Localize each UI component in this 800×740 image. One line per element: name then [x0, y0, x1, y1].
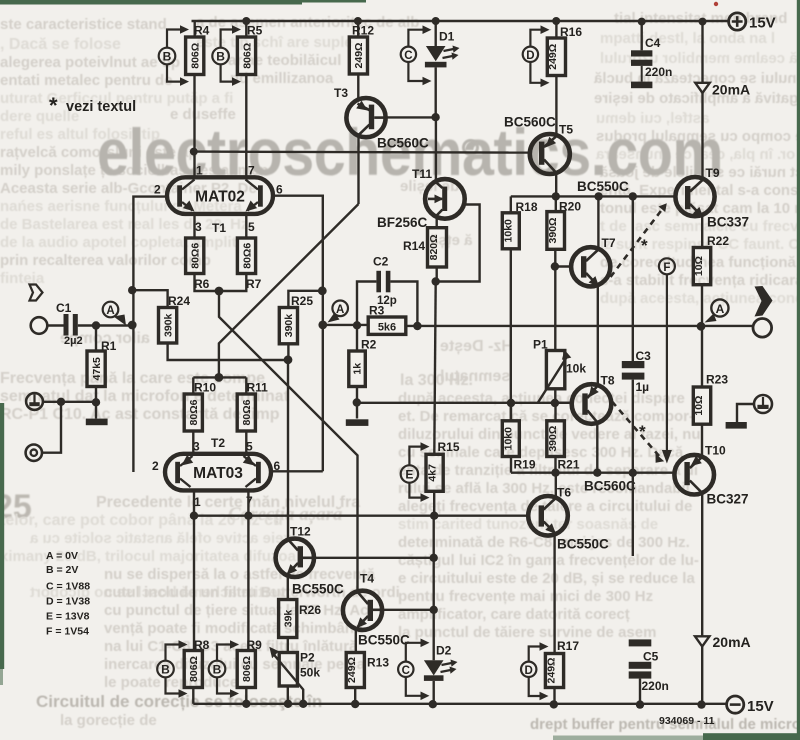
svg-text:A: A — [106, 305, 114, 317]
capacitor C3 1µ — [622, 196, 651, 556]
junction dot T12 base — [430, 554, 438, 562]
svg-text:F = 1V54: F = 1V54 — [46, 626, 89, 638]
svg-text:10k0: 10k0 — [502, 427, 514, 451]
wire D1 node down to T11 drain — [435, 117, 437, 181]
ground bar (input) — [86, 419, 108, 426]
wire T8 collector to rail — [596, 423, 598, 473]
junction dot R24 top at input column — [128, 286, 136, 294]
node A marker (output) — [705, 299, 729, 322]
wire bias column R15 to D2 — [433, 491, 436, 660]
chassis terminal (right) — [726, 395, 772, 429]
svg-text:7: 7 — [248, 164, 255, 178]
resistor R8 806Ω — [184, 638, 209, 704]
O terminal circle — [26, 445, 42, 461]
wire diagonal T3 to MAT03 tail (cross-couple) — [219, 204, 359, 377]
junction dot R19 top — [507, 399, 515, 407]
svg-text:249Ω: 249Ω — [545, 658, 557, 684]
svg-text:80Ω6: 80Ω6 — [241, 243, 253, 269]
svg-text:BC560C: BC560C — [377, 136, 429, 151]
transistor T3 BC560C — [334, 86, 429, 151]
wire T3 collector down crossing — [357, 136, 359, 205]
input terminal circle — [31, 317, 48, 334]
junction dots on top rail — [242, 17, 706, 26]
svg-text:2: 2 — [152, 459, 159, 473]
svg-text:BC560C: BC560C — [584, 479, 636, 494]
wire MAT02 pin3 to R6 — [193, 214, 195, 238]
wire R12 to T3 — [357, 74, 359, 98]
svg-text:T1: T1 — [212, 221, 226, 235]
svg-text:50k: 50k — [300, 666, 320, 680]
resistor R3 5k6 — [368, 304, 406, 335]
svg-text:R17: R17 — [557, 639, 579, 653]
node C marker (D2) — [398, 639, 429, 701]
svg-text:C2: C2 — [373, 255, 389, 269]
svg-text:820Ω: 820Ω — [428, 234, 440, 260]
svg-text:249Ω: 249Ω — [353, 43, 365, 69]
svg-text:D: D — [526, 50, 534, 62]
wire long horizontal to T5 base — [194, 152, 531, 153]
svg-text:15V: 15V — [747, 698, 774, 715]
junction dot T4 base — [430, 606, 438, 614]
svg-text:R7: R7 — [246, 277, 262, 291]
current source 20mA (bottom) — [695, 493, 751, 705]
wire bottom -15V rail — [193, 703, 726, 705]
wire T6 emitter to R17 — [553, 534, 555, 654]
svg-text:R24: R24 — [168, 294, 190, 308]
transistor T5 BC560C — [504, 115, 573, 175]
wire output line left segment — [323, 324, 368, 326]
svg-text:2: 2 — [154, 183, 161, 197]
junction dot pin1 bias row — [190, 512, 198, 520]
wire emitter rail (R19 to T10 base) — [511, 472, 674, 474]
capacitor C5 220n — [629, 639, 669, 704]
svg-text:T6: T6 — [557, 486, 571, 500]
note vezi textul — [49, 93, 136, 118]
svg-text:R19: R19 — [514, 458, 536, 472]
junction dot R2 top node — [353, 321, 361, 329]
svg-text:390Ω: 390Ω — [547, 218, 559, 244]
svg-text:T7: T7 — [602, 236, 616, 250]
output arrow symbol — [755, 286, 773, 317]
wire shield terminal to R1 node — [43, 401, 96, 403]
svg-text:806Ω: 806Ω — [190, 43, 202, 69]
transistor T7 BC550C — [571, 179, 629, 287]
svg-text:2µ2: 2µ2 — [64, 335, 83, 347]
svg-text:A = 0V: A = 0V — [46, 550, 78, 562]
svg-text:D: D — [525, 665, 533, 677]
wire MAT03 pin1 down — [193, 490, 195, 650]
svg-text:B: B — [213, 663, 222, 677]
svg-text:10Ω: 10Ω — [693, 256, 705, 276]
svg-text:220n: 220n — [645, 65, 672, 79]
svg-text:806Ω: 806Ω — [241, 43, 253, 69]
junction dot output tap on pin6 column — [318, 321, 327, 330]
node E marker (R15) — [401, 442, 430, 502]
wire C1 to base column — [78, 324, 134, 326]
resistor R12 249Ω — [349, 21, 374, 74]
svg-text:A: A — [336, 304, 344, 316]
svg-text:P1: P1 — [533, 338, 548, 352]
svg-text:MAT02: MAT02 — [195, 189, 245, 206]
svg-text:249Ω: 249Ω — [547, 44, 559, 70]
wire T7 emitter to T8 emitter — [597, 286, 599, 385]
svg-text:R13: R13 — [367, 656, 389, 670]
resistor R9 806Ω — [237, 638, 262, 704]
wire R10 R11 top row — [193, 376, 246, 378]
svg-text:R9: R9 — [247, 638, 263, 652]
resistor R4 806Ω — [186, 21, 210, 75]
wire T7 collector to rail — [597, 196, 599, 249]
wire T4 emitter to R13 — [355, 628, 357, 653]
svg-text:T5: T5 — [559, 123, 573, 137]
transistor T9 BC337 — [675, 166, 749, 230]
svg-text:R23: R23 — [706, 373, 728, 387]
wire MAT02 pin5 to R7 — [245, 214, 247, 238]
wire T12 base row — [314, 557, 434, 559]
wire ground row to P1 — [357, 402, 572, 404]
wire T12 emitter to R26 — [287, 575, 289, 600]
svg-text:R8: R8 — [194, 638, 210, 652]
wire R24 bottom to feedback row — [168, 343, 288, 360]
wire diagonal MAT02 tail to T4 collector (cross-couple) — [219, 291, 358, 591]
dual transistor T2 MAT03 — [152, 436, 281, 509]
svg-text:C1: C1 — [56, 301, 72, 315]
svg-text:80Ω6: 80Ω6 — [190, 243, 202, 269]
+15V supply terminal — [729, 13, 776, 32]
svg-text:E: E — [405, 468, 413, 482]
svg-text:C3: C3 — [636, 349, 652, 363]
resistor R10 80Ω6 — [184, 377, 216, 453]
dual transistor T1 MAT02 — [154, 164, 283, 236]
svg-text:1k: 1k — [352, 363, 364, 375]
svg-text:R15: R15 — [438, 440, 460, 454]
resistor R24 390k — [132, 290, 190, 343]
wire R25 bottom to T12 collector — [287, 344, 290, 540]
svg-text:T2: T2 — [211, 436, 225, 450]
junction dot output node — [697, 322, 706, 331]
svg-text:BC550C: BC550C — [292, 582, 344, 597]
wire T5 emitter to R16 — [555, 76, 557, 137]
input arrow symbol — [30, 285, 43, 301]
svg-text:F: F — [663, 262, 670, 274]
svg-text:B = 2V: B = 2V — [46, 564, 78, 576]
wire R14 bottom down to R15 — [434, 282, 435, 455]
capacitor C1 2µ2 — [56, 301, 83, 347]
svg-text:BC327: BC327 — [707, 492, 749, 507]
resistor R15 4k7 — [426, 440, 460, 491]
svg-text:B: B — [161, 663, 170, 677]
svg-text:47k5: 47k5 — [91, 357, 103, 381]
junction dot C2 right — [413, 322, 421, 330]
svg-text:D2: D2 — [436, 644, 452, 658]
resistor R18 10k0 — [502, 196, 538, 420]
junction dot R1 top — [92, 321, 100, 329]
wire down to O terminal — [42, 402, 61, 453]
node A marker (input) — [103, 302, 126, 326]
junction dot R2 ground node — [353, 398, 361, 406]
junction dots emitter rail — [551, 469, 637, 477]
node B marker (R8) — [157, 640, 187, 698]
junction dot pin7 bias row — [244, 512, 252, 520]
svg-text:249Ω: 249Ω — [346, 657, 358, 683]
svg-text:BF256C: BF256C — [377, 215, 428, 230]
resistor R23 10Ω — [693, 326, 728, 457]
svg-text:R11: R11 — [247, 381, 269, 395]
svg-text:390Ω: 390Ω — [547, 426, 559, 452]
svg-text:R4: R4 — [194, 24, 210, 38]
wire T4 base row — [382, 609, 434, 611]
transistor T4 BC550C — [343, 572, 410, 648]
svg-text:T4: T4 — [360, 572, 374, 586]
node B marker (R9) — [209, 640, 239, 698]
transistor T6 BC550C — [528, 486, 609, 552]
wire R4 to MAT02 pin1 — [193, 75, 195, 178]
svg-text:R26: R26 — [299, 603, 321, 617]
dashed thermal link T8-T10 — [612, 402, 664, 463]
svg-text:P2: P2 — [300, 651, 315, 665]
resistor R5 806Ω — [237, 21, 262, 75]
output terminal circle — [753, 319, 772, 338]
transistor T12 BC550C — [276, 525, 344, 597]
svg-text:BC550C: BC550C — [557, 537, 609, 552]
wire T5 collector to base rail — [555, 173, 557, 196]
svg-text:1: 1 — [196, 164, 203, 178]
legend node voltages — [46, 550, 90, 638]
svg-text:T11: T11 — [412, 167, 432, 181]
node B marker (left) — [159, 25, 189, 86]
wire T8 base from P1 node — [555, 402, 572, 404]
resistor R11 80Ω6 — [237, 377, 268, 453]
node D marker (R16) — [523, 25, 550, 87]
svg-text:R22: R22 — [707, 234, 729, 248]
svg-text:15V: 15V — [749, 15, 776, 32]
node C marker (D1) — [401, 25, 432, 85]
wire MAT02 pin6 right and down — [273, 196, 323, 472]
svg-text:R3: R3 — [369, 304, 385, 318]
svg-text:10k: 10k — [566, 362, 586, 376]
svg-text:vezi textul: vezi textul — [66, 99, 136, 115]
svg-text:T12: T12 — [290, 525, 311, 539]
dashed thermal link T7-T9 — [611, 203, 667, 277]
shield terminal (+) — [26, 393, 43, 410]
junction dot T7 base — [551, 262, 559, 270]
svg-text:A: A — [716, 302, 725, 316]
wire bias row pin1 to T6 base — [194, 515, 528, 517]
svg-text:10k0: 10k0 — [502, 219, 514, 243]
resistor R6 80Ω6 — [186, 238, 210, 291]
svg-text:*: * — [641, 236, 648, 255]
wire T6 collector to rail — [555, 473, 557, 498]
wire input to C1 — [47, 324, 63, 326]
junction dot R14 bottom — [432, 277, 440, 285]
svg-text:T8: T8 — [601, 374, 615, 388]
junction dot T3 base / D1 node — [431, 113, 439, 121]
svg-text:10Ω: 10Ω — [693, 396, 705, 416]
svg-text:80Ω6: 80Ω6 — [241, 399, 253, 425]
svg-text:B: B — [216, 50, 225, 64]
svg-text:220n: 220n — [642, 679, 669, 693]
svg-text:*: * — [49, 93, 58, 118]
svg-text:3: 3 — [195, 220, 202, 234]
svg-text:806Ω: 806Ω — [241, 656, 253, 682]
svg-text:R14: R14 — [403, 239, 425, 253]
wire T7 base — [555, 265, 571, 267]
capacitor C2 12p — [357, 255, 417, 327]
node A marker (feedback) — [328, 301, 349, 323]
svg-text:MAT03: MAT03 — [193, 465, 243, 482]
svg-text:R2: R2 — [361, 338, 377, 352]
wire T11 gate bracket to R14 bottom — [436, 205, 480, 282]
junction dot input node — [128, 321, 137, 330]
node B marker (second) — [212, 25, 241, 86]
resistor R1 47k5 — [87, 326, 117, 387]
wire T3 base to D1 column — [386, 116, 436, 118]
junction dots base rail — [552, 192, 637, 200]
capacitor C4 220n — [631, 22, 672, 89]
svg-text:806Ω: 806Ω — [188, 656, 200, 682]
wire MAT02 pin2 to input column — [133, 197, 167, 472]
junction dot node at R4 collector line — [190, 148, 198, 156]
potentiometer P2 50k — [269, 647, 320, 704]
svg-text:C = 1V88: C = 1V88 — [46, 581, 90, 593]
junction dots bottom rail — [242, 700, 706, 709]
junction dot R1 ground node — [92, 398, 100, 406]
svg-text:R25: R25 — [291, 294, 313, 308]
ground bar (R2) — [346, 419, 369, 426]
LED D2 — [424, 644, 458, 705]
resistor R2 1k — [349, 325, 377, 418]
ghost background text layer — [0, 0, 800, 1]
svg-text:T3: T3 — [334, 86, 348, 100]
svg-text:C: C — [402, 665, 410, 677]
svg-text:39k: 39k — [283, 610, 295, 628]
node F marker — [659, 258, 675, 463]
resistor R16 249Ω — [547, 21, 582, 76]
junction dot shield — [57, 398, 65, 406]
svg-text:390k: 390k — [162, 313, 174, 337]
svg-text:R18: R18 — [516, 200, 538, 214]
svg-text:R1: R1 — [101, 339, 117, 353]
svg-text:R12: R12 — [352, 24, 374, 38]
wire T11 source to R14 — [436, 216, 438, 228]
svg-text:4k7: 4k7 — [426, 464, 438, 482]
junction dot bias column at pin1 row — [430, 512, 438, 520]
svg-text:20mA: 20mA — [713, 634, 751, 650]
svg-text:*: * — [639, 422, 646, 441]
resistor R13 249Ω — [346, 653, 389, 705]
transistor T10 BC327 — [674, 444, 748, 507]
svg-text:C: C — [404, 50, 412, 62]
svg-text:BC337: BC337 — [707, 215, 749, 230]
junction dot R25 top on pin6 column — [318, 286, 327, 295]
svg-text:20mA: 20mA — [712, 82, 750, 98]
wire MAT03 pin6 row — [271, 470, 323, 472]
svg-text:C4: C4 — [645, 36, 661, 50]
svg-text:R6: R6 — [194, 277, 210, 291]
junction dot P1 bottom — [551, 399, 559, 407]
svg-text:BC550C: BC550C — [358, 633, 410, 648]
resistor R25 390k — [279, 291, 322, 344]
svg-text:B: B — [163, 50, 172, 64]
svg-text:C5: C5 — [643, 650, 659, 664]
resistor R17 249Ω — [545, 639, 579, 704]
svg-text:T10: T10 — [705, 444, 726, 458]
wire top +15V rail — [192, 20, 729, 22]
resistor R7 80Ω6 — [237, 238, 261, 291]
resistor R26 39k — [279, 600, 322, 653]
svg-text:BC560C: BC560C — [504, 115, 556, 130]
svg-text:R21: R21 — [558, 458, 580, 472]
junction dot R25 bottom — [284, 355, 293, 364]
LED D1 — [425, 21, 460, 117]
wire T9 emitter to R22 — [701, 217, 703, 248]
resistor R22 10Ω — [693, 234, 729, 326]
svg-text:D = 1V38: D = 1V38 — [46, 596, 90, 608]
junction dot MAT02 tail — [215, 287, 224, 296]
wire R5 to MAT02 pin7 — [245, 75, 247, 178]
wire base rail T9 (R18 to T9) — [511, 195, 676, 197]
svg-text:E = 13V8: E = 13V8 — [46, 611, 90, 623]
svg-text:390k: 390k — [283, 314, 295, 338]
svg-text:R16: R16 — [560, 25, 582, 39]
node D marker (R17) — [521, 642, 549, 700]
-15V supply terminal — [727, 696, 774, 715]
resistor R21 390Ω — [547, 403, 580, 473]
junction dot MAT03 tail — [215, 373, 224, 382]
wire MAT03 pin7 down — [247, 490, 249, 650]
svg-text:R20: R20 — [559, 200, 581, 214]
potentiometer P1 10k — [533, 338, 586, 404]
svg-text:5: 5 — [248, 220, 255, 234]
svg-text:T9: T9 — [706, 166, 720, 180]
resistor R14 820Ω — [403, 228, 447, 282]
svg-text:5k6: 5k6 — [378, 321, 396, 333]
svg-text:BC550C: BC550C — [577, 179, 629, 194]
watermark — [97, 114, 758, 190]
svg-text:R10: R10 — [194, 381, 216, 395]
jfet T11 BF256C — [377, 167, 465, 230]
svg-text:80Ω6: 80Ω6 — [188, 399, 200, 425]
wire R6 R7 emitters junction — [195, 274, 247, 292]
svg-text:R5: R5 — [247, 24, 263, 38]
wire output line after R3 — [406, 325, 753, 327]
current source 20mA (top) — [695, 22, 750, 179]
svg-text:D1: D1 — [439, 30, 455, 44]
svg-text:934069 - 11: 934069 - 11 — [659, 715, 715, 727]
resistor R19 10k0 — [502, 403, 536, 473]
wire R1 bottom — [95, 387, 97, 419]
svg-text:6: 6 — [276, 183, 283, 197]
resistor R20 390Ω — [547, 196, 581, 350]
svg-text:1µ: 1µ — [636, 380, 650, 394]
transistor T8 BC560C — [572, 374, 636, 494]
